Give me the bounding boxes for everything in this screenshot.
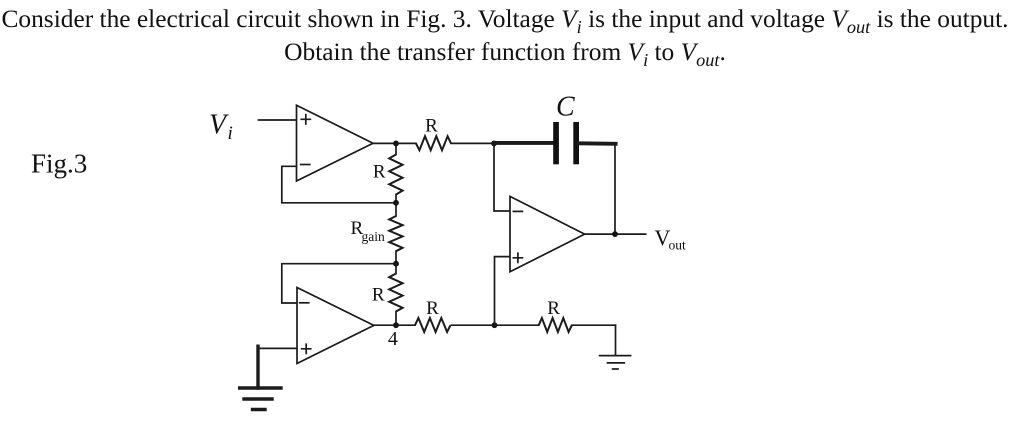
node C (Rgain / R2 junction) — [393, 261, 399, 267]
label R (R2) — [372, 285, 385, 306]
svg-text:R: R — [426, 298, 439, 319]
wire: node E up to U2 + input — [495, 257, 511, 326]
ground G2 — [600, 356, 631, 369]
label R (R4) — [547, 298, 560, 319]
node B (R1 / Rgain junction) — [393, 200, 399, 206]
resistor R5 (horizontal R from node A to node F) — [396, 136, 494, 150]
wire: ground to U3 + input — [258, 347, 297, 349]
wire: U3 output to node D — [374, 324, 396, 326]
svg-text:R: R — [547, 298, 560, 319]
wire: down to ground G2 — [615, 325, 617, 355]
svg-text:V: V — [209, 110, 229, 141]
node E (bottom junction) — [492, 322, 498, 328]
wire: node F down to U2 - input — [494, 143, 510, 211]
wire: node C to U3 - input — [282, 264, 396, 303]
svg-text:gain: gain — [362, 229, 385, 244]
node F (R5 / capacitor / U2 - junction) — [491, 141, 497, 147]
svg-text:4: 4 — [388, 328, 398, 350]
node D (U3 output junction, node 4) — [393, 322, 399, 328]
label Rgain — [351, 218, 385, 244]
resistor R2 (vertical R between node C and node D) — [389, 264, 402, 326]
wire: capacitor right lead down to U2 output node G — [614, 145, 616, 235]
label R (R1) — [373, 162, 386, 183]
resistor R1 (vertical R between node A and node B) — [389, 143, 402, 202]
label C — [556, 92, 575, 123]
label Vi — [209, 110, 233, 145]
op-amp U2 (right) — [510, 196, 585, 271]
capacitor C1 left lead (thick) — [494, 141, 553, 145]
label R (R3) — [426, 298, 439, 319]
ground G1 (thick) — [240, 388, 281, 410]
resistor R4 (horizontal R from node E to ground G2) — [495, 318, 616, 332]
op-amp U3 (bottom-left) — [297, 288, 374, 364]
node G (U2 output / capacitor junction) — [612, 231, 618, 237]
svg-text:R: R — [425, 116, 438, 137]
capacitor C1 plates — [553, 122, 579, 164]
capacitor C1 right lead (thick) — [579, 141, 616, 145]
wire: U1 feedback (- input to node B) — [282, 166, 396, 203]
op-amp U1 (top-left) — [297, 105, 374, 181]
label 4 (node number) — [388, 328, 398, 350]
wire: U1 output to node A — [373, 142, 396, 144]
label Vout — [655, 225, 687, 253]
label Fig.3 — [31, 148, 87, 178]
wire: Vi input to U1 + — [259, 119, 297, 121]
svg-text:R: R — [372, 285, 385, 306]
wire: U2 output to Vout — [585, 233, 646, 235]
resistor R3 (horizontal R from node D to node E) — [396, 318, 495, 332]
svg-text:C: C — [556, 92, 575, 123]
thick wire down to ground G1 — [256, 346, 259, 388]
svg-text:Fig.3: Fig.3 — [31, 148, 87, 178]
node A (U1 output junction) — [393, 141, 399, 147]
label R (R5) — [425, 116, 438, 137]
svg-text:out: out — [669, 238, 687, 253]
svg-text:R: R — [373, 162, 386, 183]
resistor Rgain (vertical between node B and node C) — [389, 203, 402, 264]
svg-text:i: i — [228, 123, 233, 144]
